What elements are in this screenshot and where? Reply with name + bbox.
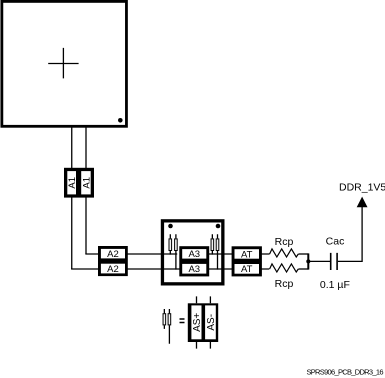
wire top row horizontal (85, 253, 269, 255)
svg-text:A2: A2 (107, 264, 119, 275)
crosshair center mark (48, 48, 78, 79)
wire vertical left from processor to bottom row (71, 126, 73, 269)
wire capacitor to power rail riser (338, 207, 362, 262)
wire top row inside memory box (164, 253, 222, 255)
resistor Rcp bottom (270, 264, 299, 272)
svg-text:A3: A3 (188, 249, 200, 260)
via pair left (AS+/AS-) (169, 234, 177, 269)
wire bottom row inside memory box (164, 268, 222, 270)
pin 1 dot of processor (118, 118, 123, 123)
svg-text:AS-: AS- (206, 314, 217, 331)
svg-text:Rcp: Rcp (275, 278, 294, 290)
legend via pair symbol (163, 309, 171, 344)
wire bottom row horizontal (71, 268, 269, 270)
processor U1 (BGA outline) (2, 1, 127, 126)
svg-text:Cac: Cac (326, 235, 345, 247)
trace segment block A3 (179, 246, 209, 276)
svg-text:A1: A1 (67, 177, 78, 189)
svg-text:A2: A2 (107, 249, 119, 260)
svg-text:A1: A1 (81, 177, 92, 189)
svg-text:AT: AT (241, 249, 253, 260)
junction node dot (306, 259, 310, 263)
svg-text:DDR_1V5: DDR_1V5 (339, 182, 385, 194)
svg-text:AS+: AS+ (192, 313, 203, 332)
resistor Rcp top (270, 249, 299, 257)
trace segment block A1 (64, 168, 94, 198)
trace segment block AT (232, 246, 262, 276)
wire from bottom resistor to junction (298, 268, 308, 270)
capacitor Cac (331, 253, 337, 270)
pin 1 dot right in memory box (216, 224, 221, 229)
pin 1 dot left in memory box (168, 224, 173, 229)
svg-text:SPRS906_PCB_DDR3_16: SPRS906_PCB_DDR3_16 (306, 367, 383, 376)
svg-text:Rcp: Rcp (275, 236, 294, 248)
svg-text:A3: A3 (188, 264, 200, 275)
power arrow DDR_1V5 (358, 198, 367, 207)
junction vertical bar (307, 253, 309, 269)
DDR memory footprint box (162, 221, 222, 284)
wire junction to capacitor (308, 260, 330, 262)
legend block AS+/AS- (188, 296, 218, 348)
trace segment block A2 (98, 246, 128, 276)
equals sign (180, 319, 185, 323)
wire from top resistor to junction (298, 253, 308, 255)
svg-text:AT: AT (241, 264, 253, 275)
via pair right (AS+/AS-) (211, 234, 219, 269)
wire vertical right from processor to top row (85, 126, 87, 254)
svg-text:0.1 µF: 0.1 µF (320, 279, 350, 291)
